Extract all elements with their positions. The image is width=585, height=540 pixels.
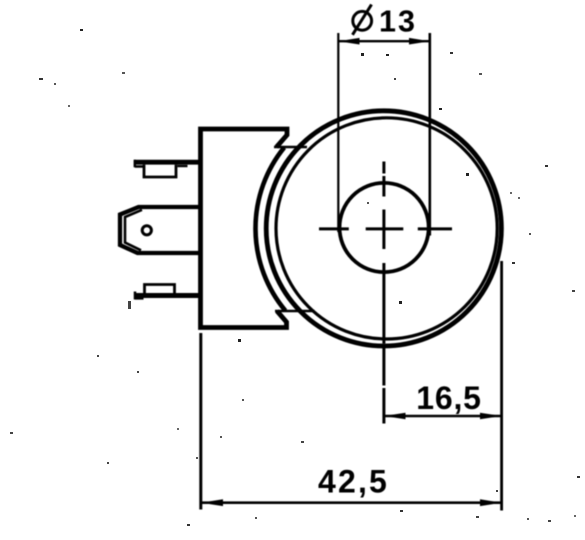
svg-text:16,5: 16,5 bbox=[416, 380, 481, 416]
spade terminal outline bbox=[120, 207, 201, 253]
dimension 16,5 arrow right bbox=[480, 413, 502, 420]
bottom terminal pin bbox=[134, 293, 201, 298]
dimension 42,5 arrow left bbox=[201, 499, 223, 506]
svg-text:42,5: 42,5 bbox=[318, 464, 389, 500]
coil housing band arc bbox=[256, 148, 286, 311]
bottom pin end cap bbox=[135, 292, 144, 300]
dimension 42,5 extension line left bbox=[199, 333, 202, 510]
bottom pin crimp block bbox=[145, 285, 175, 294]
dimension 16,5 arrow left bbox=[384, 413, 406, 420]
coil inner ring circle bbox=[276, 118, 497, 339]
vertical centerline bbox=[382, 162, 385, 424]
bore circle bbox=[340, 183, 429, 272]
spade folded-edge inner line bbox=[125, 210, 142, 251]
top pin end cap bbox=[135, 160, 144, 168]
notch line bottom bbox=[275, 310, 315, 313]
dimension 16,5 extension line right bbox=[500, 261, 503, 511]
top pin crimp block bbox=[144, 165, 176, 177]
dimension Ø13 arrow left bbox=[338, 38, 359, 45]
dimension 42,5 arrow right bbox=[480, 499, 502, 506]
notch line top bbox=[274, 146, 307, 149]
bottom pin tick bbox=[177, 293, 189, 295]
dimension Ø13 extension line left bbox=[337, 33, 339, 232]
top terminal pin bbox=[134, 160, 201, 165]
dimension Ø13 arrow right bbox=[409, 38, 430, 45]
dimension 16,5 dimension line bbox=[384, 415, 502, 417]
top pin tick bbox=[178, 165, 188, 167]
diameter symbol slash bbox=[353, 5, 372, 35]
svg-text:13: 13 bbox=[379, 5, 417, 39]
spade terminal hole bbox=[142, 226, 151, 235]
horizontal centerline bbox=[319, 227, 452, 230]
coil body flange outline bbox=[201, 129, 288, 328]
dimension Ø13 extension line right bbox=[428, 33, 431, 236]
tick below bottom pin bbox=[128, 301, 131, 309]
dimension 42,5 dimension line bbox=[201, 501, 502, 504]
diameter symbol circle bbox=[353, 11, 372, 30]
dimension Ø13 dimension line bbox=[338, 40, 430, 42]
coil outer circle bbox=[266, 111, 501, 346]
